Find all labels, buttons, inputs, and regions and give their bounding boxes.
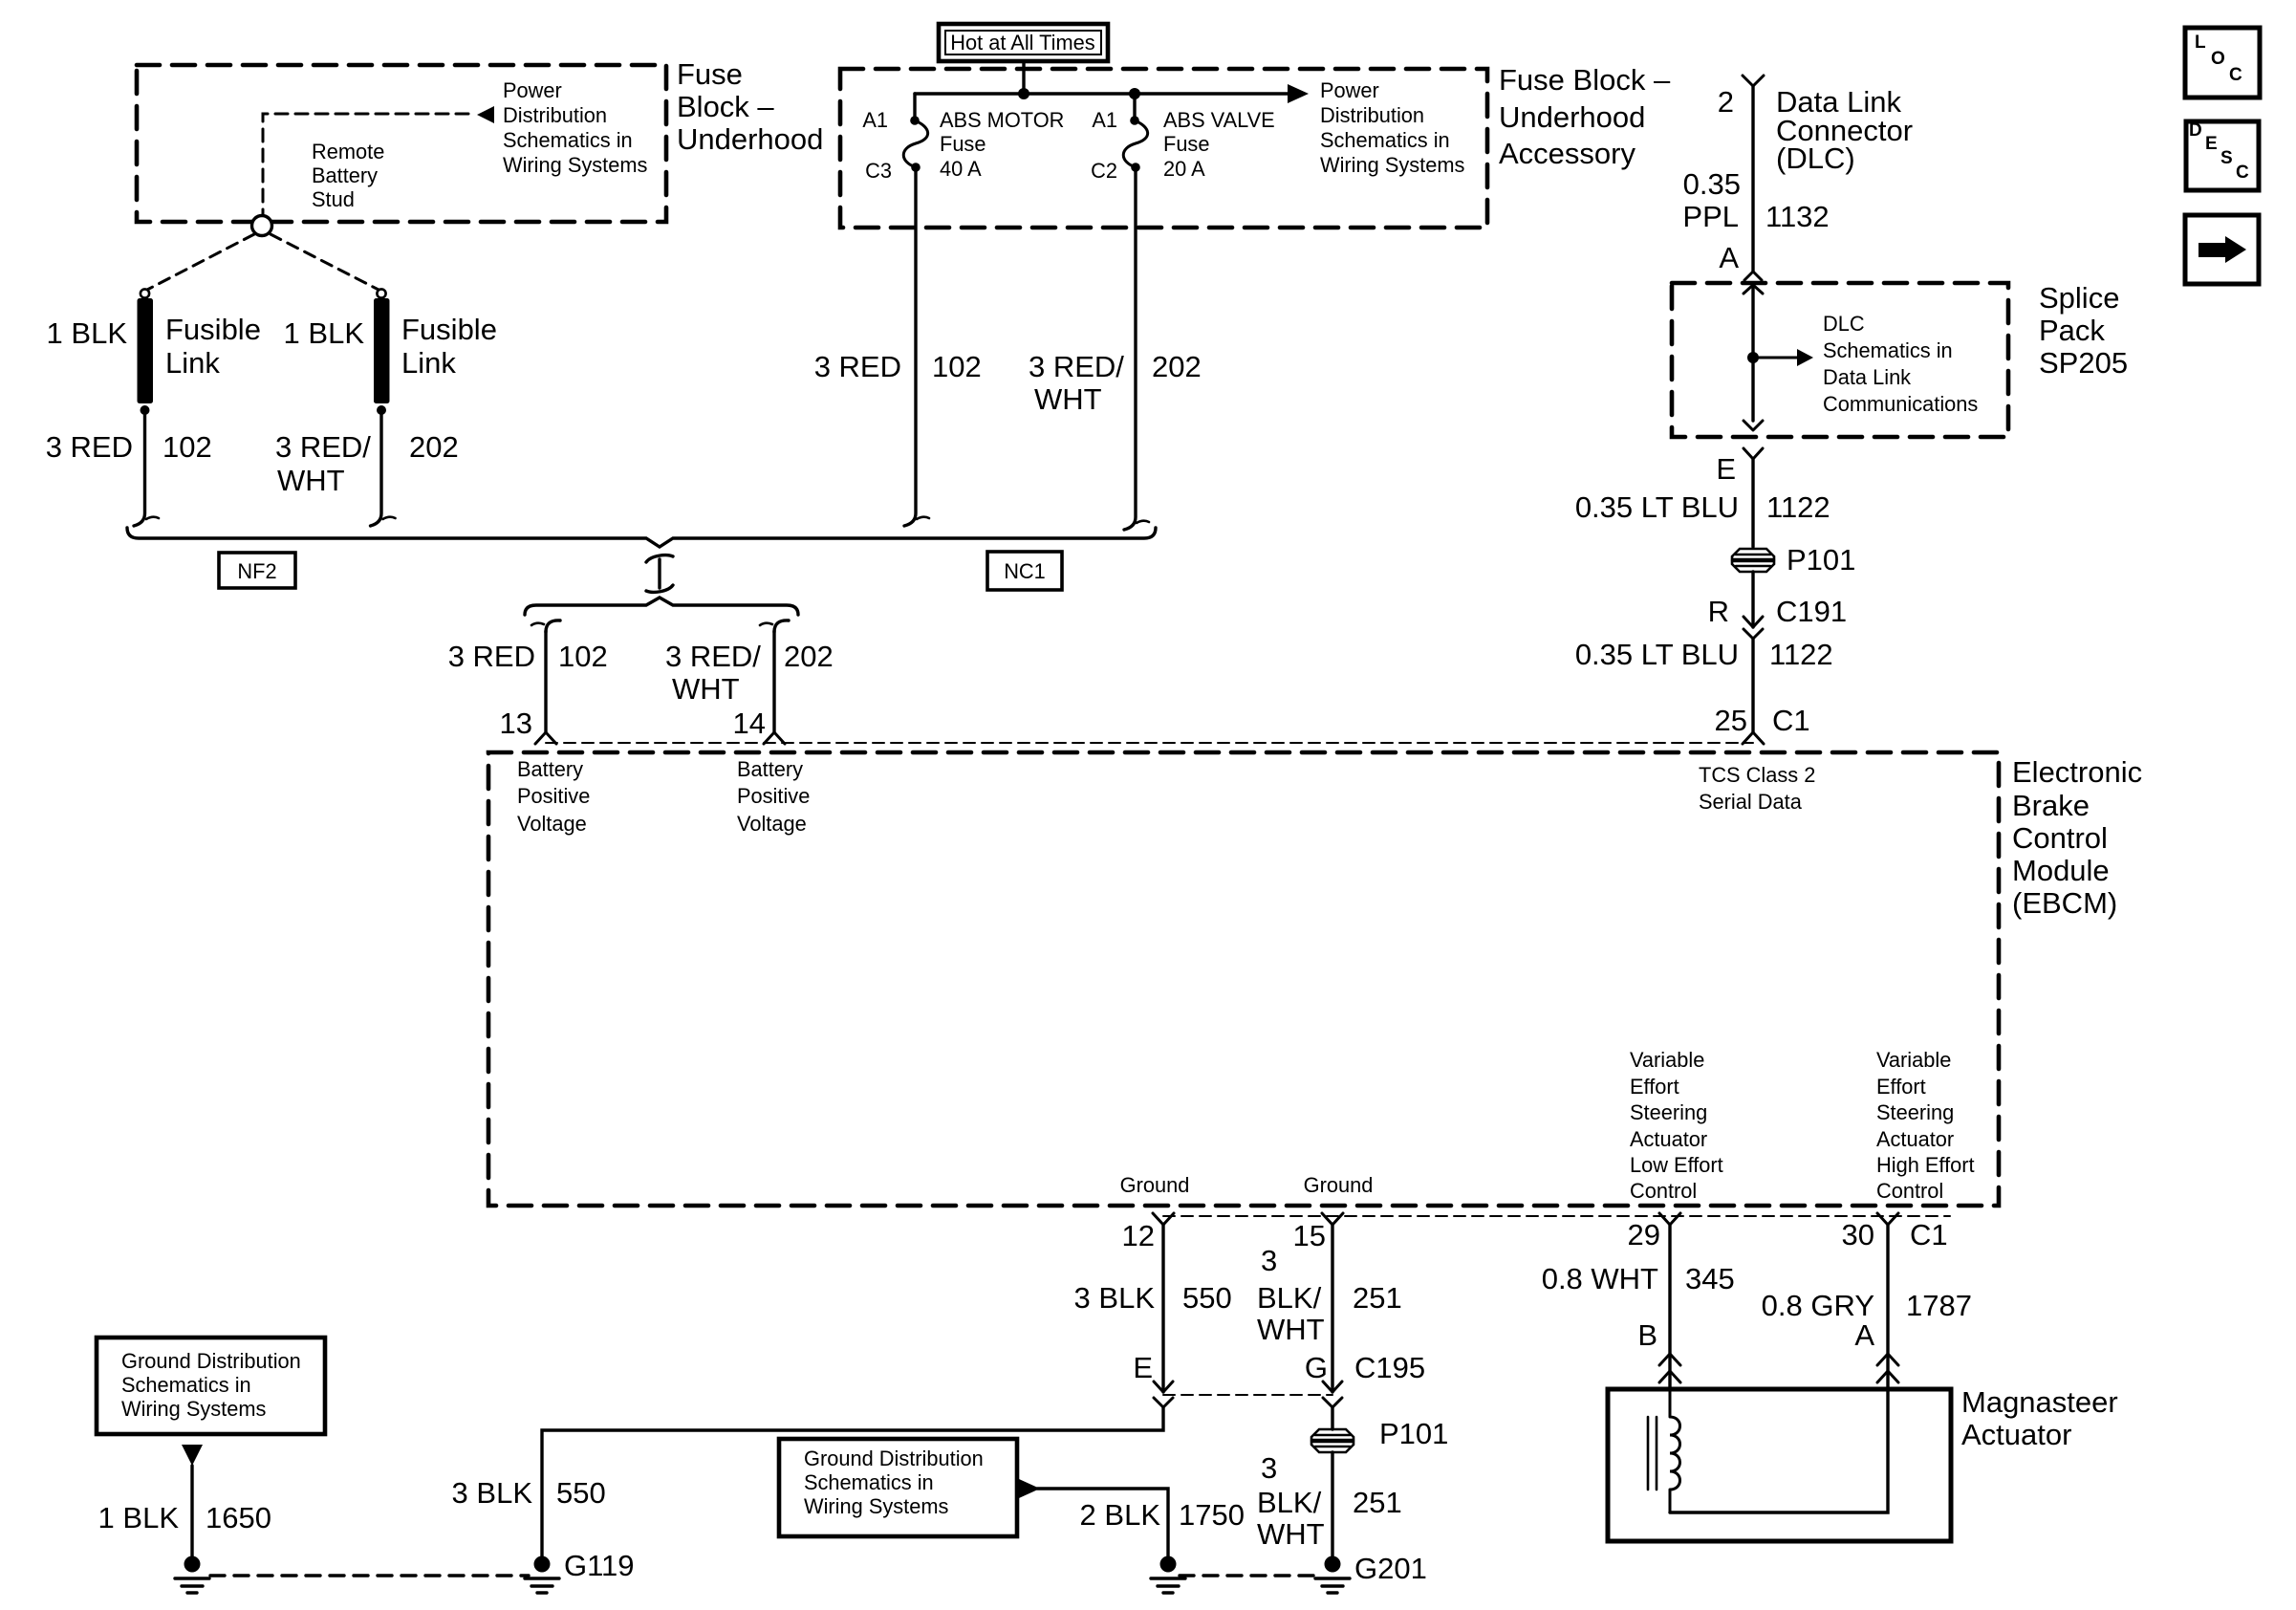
- svg-text:WHT: WHT: [1257, 1313, 1325, 1346]
- svg-text:A: A: [1719, 241, 1739, 274]
- Magnasteer coil winding: [1670, 1389, 1680, 1512]
- reference arrowhead to Power Distribution: [477, 106, 494, 123]
- svg-text:R: R: [1708, 595, 1729, 628]
- svg-text:20 A: 20 A: [1163, 157, 1205, 181]
- svg-text:40 A: 40 A: [940, 157, 982, 181]
- svg-text:3 RED/: 3 RED/: [275, 430, 371, 464]
- svg-text:Voltage: Voltage: [517, 812, 587, 836]
- svg-text:3: 3: [1261, 1244, 1277, 1277]
- svg-text:251: 251: [1353, 1281, 1402, 1315]
- svg-text:NF2: NF2: [237, 559, 276, 583]
- arrowhead to Power Distribution: [1288, 84, 1309, 103]
- junction dot below right fusible link: [377, 405, 386, 415]
- svg-text:Wiring Systems: Wiring Systems: [804, 1494, 948, 1518]
- svg-text:E: E: [2205, 134, 2218, 154]
- Hot at All Times box: [939, 24, 1108, 61]
- svg-text:Ground: Ground: [1304, 1173, 1374, 1197]
- C195 thin dashed connector line: [1163, 1394, 1332, 1396]
- svg-text:B: B: [1637, 1318, 1657, 1352]
- svg-text:P101: P101: [1787, 543, 1855, 577]
- wire: circuit 102 from left fusible link down to NF2 bus: [134, 413, 145, 526]
- ground G119 symbol: [525, 1578, 559, 1593]
- wire from Hot at All Times down to bus: [1022, 61, 1025, 94]
- svg-text:Accessory: Accessory: [1499, 137, 1635, 170]
- svg-text:C1: C1: [1772, 704, 1810, 737]
- svg-text:G119: G119: [564, 1549, 635, 1582]
- svg-text:Positive: Positive: [737, 784, 810, 808]
- svg-text:Underhood: Underhood: [1499, 100, 1645, 134]
- svg-text:Underhood: Underhood: [677, 122, 823, 156]
- EBCM bottom connector thin dashed line: [1163, 1215, 1950, 1217]
- svg-text:1132: 1132: [1765, 200, 1830, 233]
- wire: circuit 345 from pin 29 to Magnasteer: [1668, 1225, 1671, 1389]
- svg-text:Hot at All Times: Hot at All Times: [950, 31, 1095, 54]
- svg-text:550: 550: [556, 1476, 606, 1510]
- wire curl at top of circuit 202 branch: [774, 620, 789, 632]
- ground distribution reference box (left): [97, 1338, 325, 1434]
- svg-text:Remote: Remote: [312, 140, 384, 163]
- svg-text:Effort: Effort: [1630, 1075, 1679, 1099]
- EBCM dashed box: [488, 752, 1999, 1206]
- svg-text:ABS VALVE: ABS VALVE: [1163, 108, 1275, 132]
- ground symbol (1750): [1151, 1578, 1185, 1593]
- dashed ground bus G201: [1180, 1574, 1319, 1577]
- svg-text:550: 550: [1182, 1281, 1232, 1315]
- svg-text:Electronic: Electronic: [2012, 755, 2142, 789]
- feed bus line with arrow to Power Distribution: [915, 92, 1292, 95]
- svg-text:15: 15: [1293, 1219, 1326, 1252]
- wire: circuit 1132 from DLC down to splice pack: [1751, 86, 1754, 272]
- svg-text:1122: 1122: [1769, 638, 1833, 671]
- svg-text:BLK/: BLK/: [1257, 1486, 1322, 1519]
- LOC legend box: [2185, 28, 2260, 98]
- connector E fork below splice pack: [1744, 448, 1763, 459]
- svg-text:Link: Link: [401, 346, 456, 380]
- svg-text:3: 3: [1261, 1451, 1277, 1485]
- ground symbol (1650): [175, 1578, 209, 1593]
- splice exit chevron: [1744, 421, 1763, 430]
- svg-text:C3: C3: [865, 159, 892, 183]
- svg-text:Distribution: Distribution: [1320, 103, 1424, 127]
- svg-text:PPL: PPL: [1682, 200, 1739, 233]
- svg-text:1650: 1650: [206, 1501, 271, 1534]
- svg-text:Ground Distribution: Ground Distribution: [121, 1349, 301, 1373]
- svg-text:345: 345: [1685, 1262, 1735, 1295]
- svg-text:Control: Control: [1876, 1179, 1943, 1203]
- wire curl at top of circuit 102 branch: [546, 620, 560, 632]
- ground dot (1750): [1160, 1556, 1177, 1573]
- ABS VALVE fuse element: [1130, 116, 1139, 125]
- splice junction dot: [1747, 352, 1759, 363]
- splice pack SP205 dashed box: [1672, 283, 2008, 437]
- terminal circle atop left fusible link: [141, 289, 149, 297]
- terminal circle atop right fusible link: [377, 289, 385, 297]
- svg-text:Fusible: Fusible: [401, 313, 497, 346]
- wire: 550 from C195 to G119 ground: [542, 1407, 1163, 1556]
- svg-text:E: E: [1133, 1351, 1153, 1384]
- junction dot below left fusible link: [141, 405, 150, 415]
- wire: 251 from C195 to P101: [1331, 1407, 1333, 1429]
- svg-text:C: C: [2229, 65, 2242, 85]
- svg-text:102: 102: [558, 640, 608, 673]
- pin 12 connector fork: [1153, 1213, 1174, 1225]
- svg-text:0.35 LT BLU: 0.35 LT BLU: [1575, 490, 1739, 524]
- wire: circuit 1122 from splice to P101: [1751, 459, 1754, 547]
- svg-text:Power: Power: [1320, 78, 1379, 102]
- fuse block underhood accessory dashed box: [840, 69, 1487, 228]
- svg-text:(EBCM): (EBCM): [2012, 886, 2117, 920]
- svg-text:3 RED/: 3 RED/: [665, 640, 761, 673]
- svg-text:3 BLK: 3 BLK: [452, 1476, 533, 1510]
- svg-text:25: 25: [1715, 704, 1747, 737]
- svg-text:Fuse: Fuse: [677, 57, 743, 91]
- svg-text:251: 251: [1353, 1486, 1402, 1519]
- fuse block underhood dashed box (top-left remote battery stud region): [137, 65, 666, 222]
- wire: circuit 202 from right fusible link down to NF2 bus: [371, 413, 382, 526]
- connector C195 pin G fork: [1323, 1398, 1342, 1407]
- svg-text:Battery: Battery: [312, 163, 378, 187]
- connector A fork (wire end): [1744, 272, 1762, 280]
- svg-text:13: 13: [500, 707, 532, 740]
- Magnasteer pin A chevrons: [1877, 1354, 1898, 1382]
- svg-text:3 BLK: 3 BLK: [1074, 1281, 1156, 1315]
- connector C195 pin E chevron: [1154, 1382, 1173, 1392]
- bus brace NF2/NC1 (main battery feed bus): [127, 528, 1156, 547]
- svg-text:2 BLK: 2 BLK: [1080, 1498, 1161, 1532]
- label box: NF2: [219, 553, 295, 588]
- svg-text:Positive: Positive: [517, 784, 590, 808]
- svg-text:G: G: [1305, 1351, 1328, 1384]
- wire: circuit 102 down to EBCM pin 13: [544, 631, 547, 732]
- wire drop to ABS VALVE fuse: [1133, 94, 1136, 117]
- svg-text:Wiring Systems: Wiring Systems: [503, 153, 647, 177]
- DLC pin 2 connector fork: [1743, 76, 1764, 86]
- remote battery stud inner dashed outline: [263, 114, 470, 222]
- wire: circuit 1650 to ground: [190, 1466, 193, 1556]
- svg-text:102: 102: [162, 430, 212, 464]
- connector C195 pin G chevron: [1323, 1382, 1342, 1392]
- Magnasteer actuator box: [1608, 1389, 1951, 1541]
- svg-text:12: 12: [1122, 1219, 1155, 1252]
- svg-text:202: 202: [409, 430, 459, 464]
- svg-text:Wiring Systems: Wiring Systems: [121, 1397, 266, 1421]
- svg-text:C1: C1: [1910, 1218, 1948, 1251]
- DESC legend box: [2186, 120, 2259, 190]
- svg-text:Module: Module: [2012, 854, 2110, 887]
- svg-text:Variable: Variable: [1876, 1048, 1951, 1072]
- ground G201 dot: [1325, 1556, 1341, 1573]
- connector C191 fork (wire start): [1744, 629, 1763, 639]
- svg-text:Schematics in: Schematics in: [1823, 338, 1953, 362]
- svg-text:Link: Link: [165, 346, 220, 380]
- svg-text:C2: C2: [1091, 159, 1117, 183]
- svg-text:Schematics in: Schematics in: [503, 128, 633, 152]
- ABS MOTOR fuse element: [910, 116, 920, 125]
- svg-text:0.35: 0.35: [1683, 167, 1741, 201]
- fusible link F2 body: [374, 298, 390, 403]
- pin 14 connector fork: [764, 732, 785, 744]
- lower distribution brace for EBCM feed wires: [525, 598, 798, 615]
- svg-text:202: 202: [1152, 350, 1202, 383]
- reference arrowhead (1750): [1019, 1479, 1040, 1498]
- svg-text:102: 102: [932, 350, 982, 383]
- wire: 1122 from C191 to EBCM pin 25: [1751, 639, 1754, 732]
- svg-text:Ground: Ground: [1120, 1173, 1190, 1197]
- arrow legend box: [2185, 215, 2259, 284]
- svg-text:C195: C195: [1354, 1351, 1425, 1384]
- wire: circuit 1787 from pin 30 to Magnasteer: [1886, 1225, 1889, 1389]
- svg-text:Actuator: Actuator: [1961, 1418, 2071, 1451]
- wire: circuit 202 from ABS VALVE fuse down to bus: [1124, 171, 1136, 530]
- svg-text:Block –: Block –: [677, 90, 774, 123]
- svg-text:ABS MOTOR: ABS MOTOR: [940, 108, 1064, 132]
- svg-text:G201: G201: [1354, 1552, 1427, 1585]
- svg-text:Fusible: Fusible: [165, 313, 261, 346]
- svg-text:Fuse Block –: Fuse Block –: [1499, 63, 1671, 97]
- ground G201 symbol: [1315, 1578, 1350, 1593]
- svg-text:TCS Class 2: TCS Class 2: [1699, 763, 1815, 787]
- svg-text:Brake: Brake: [2012, 789, 2090, 822]
- svg-text:P101: P101: [1379, 1417, 1448, 1450]
- dashed ground bus G119: [210, 1574, 529, 1577]
- wire: circuit 102 from ABS MOTOR fuse down to bus: [904, 171, 916, 526]
- svg-text:A: A: [1854, 1318, 1874, 1352]
- svg-text:30: 30: [1842, 1218, 1874, 1251]
- svg-text:3 RED: 3 RED: [814, 350, 901, 383]
- svg-text:Battery: Battery: [737, 757, 803, 781]
- svg-text:Steering: Steering: [1876, 1100, 1954, 1124]
- svg-text:1 BLK: 1 BLK: [47, 316, 128, 350]
- svg-text:Actuator: Actuator: [1876, 1127, 1954, 1151]
- svg-text:NC1: NC1: [1004, 559, 1046, 583]
- svg-text:3 RED: 3 RED: [448, 640, 535, 673]
- svg-text:Low Effort: Low Effort: [1630, 1153, 1723, 1177]
- splice internal wire with entry chevron: [1744, 285, 1763, 294]
- svg-text:Actuator: Actuator: [1630, 1127, 1707, 1151]
- wire: circuit 202 down to EBCM pin 14: [772, 631, 775, 732]
- svg-text:DLC: DLC: [1823, 312, 1865, 336]
- svg-text:3 RED/: 3 RED/: [1029, 350, 1124, 383]
- svg-text:1 BLK: 1 BLK: [98, 1501, 180, 1534]
- svg-text:0.35 LT BLU: 0.35 LT BLU: [1575, 638, 1739, 671]
- svg-text:Serial Data: Serial Data: [1699, 790, 1803, 814]
- pin 30 connector fork: [1877, 1213, 1898, 1225]
- pin 25 connector fork: [1743, 732, 1764, 744]
- wire: 1122 from P101 to C191: [1751, 572, 1754, 627]
- svg-text:WHT: WHT: [277, 464, 345, 497]
- svg-text:Pack: Pack: [2039, 314, 2105, 347]
- svg-text:Control: Control: [1630, 1179, 1697, 1203]
- Magnasteer internal loop wire: [1670, 1389, 1888, 1512]
- svg-text:C: C: [2236, 163, 2249, 183]
- svg-text:SP205: SP205: [2039, 346, 2128, 380]
- svg-text:1750: 1750: [1179, 1498, 1245, 1532]
- svg-text:Schematics in: Schematics in: [1320, 128, 1450, 152]
- splice reference arrow to DLC schematics: [1753, 357, 1799, 359]
- junction dot at ABS VALVE branch: [1129, 88, 1140, 99]
- svg-text:1122: 1122: [1766, 490, 1830, 524]
- svg-text:Distribution: Distribution: [503, 103, 607, 127]
- svg-text:3 RED: 3 RED: [46, 430, 133, 464]
- svg-text:(DLC): (DLC): [1776, 141, 1855, 175]
- svg-text:Wiring Systems: Wiring Systems: [1320, 153, 1464, 177]
- svg-text:E: E: [1716, 452, 1736, 486]
- svg-text:Battery: Battery: [517, 757, 583, 781]
- connector C195 pin E fork: [1154, 1398, 1173, 1407]
- fusible link F1 body: [138, 298, 154, 403]
- svg-text:0.8 WHT: 0.8 WHT: [1542, 1262, 1658, 1295]
- ground dot (1650): [184, 1556, 201, 1573]
- wire: dashed diagonal to left fusible link: [147, 234, 254, 290]
- svg-text:29: 29: [1628, 1218, 1660, 1251]
- svg-text:Ground Distribution: Ground Distribution: [804, 1447, 984, 1470]
- bus continuation symbol below brace point: [658, 559, 661, 588]
- svg-text:Fuse: Fuse: [940, 132, 986, 156]
- svg-text:Data Link: Data Link: [1823, 365, 1911, 389]
- svg-text:WHT: WHT: [1257, 1517, 1325, 1551]
- svg-text:Effort: Effort: [1876, 1075, 1926, 1099]
- ground G119 dot: [534, 1556, 551, 1573]
- svg-text:Variable: Variable: [1630, 1048, 1704, 1072]
- pin 15 connector fork: [1322, 1213, 1343, 1225]
- pin 29 connector fork: [1659, 1213, 1680, 1225]
- svg-text:202: 202: [784, 640, 834, 673]
- wire drop to ABS MOTOR fuse: [913, 94, 916, 117]
- ground distribution reference box (right): [779, 1439, 1017, 1536]
- svg-text:Power: Power: [503, 78, 562, 102]
- svg-text:Schematics in: Schematics in: [804, 1470, 934, 1494]
- svg-text:Communications: Communications: [1823, 392, 1978, 416]
- svg-text:2: 2: [1718, 85, 1734, 119]
- wire: circuit 1750 up and left to reference arrow: [1037, 1489, 1168, 1556]
- EBCM C1 connector thin dashed line: [546, 742, 1753, 744]
- svg-text:WHT: WHT: [672, 672, 740, 706]
- pass-through grommet P101 (upper): [1732, 549, 1774, 572]
- svg-text:A1: A1: [862, 108, 888, 132]
- svg-text:Fuse: Fuse: [1163, 132, 1209, 156]
- svg-text:Magnasteer: Magnasteer: [1961, 1385, 2118, 1419]
- svg-text:1 BLK: 1 BLK: [284, 316, 365, 350]
- Magnasteer coil core bars: [1648, 1417, 1657, 1490]
- svg-text:Steering: Steering: [1630, 1100, 1707, 1124]
- pass-through grommet P101 (lower): [1311, 1429, 1354, 1452]
- node: remote battery stud circle: [252, 216, 272, 236]
- svg-text:0.8 GRY: 0.8 GRY: [1762, 1289, 1874, 1322]
- svg-text:D: D: [2189, 120, 2202, 141]
- svg-text:C191: C191: [1776, 595, 1847, 628]
- svg-text:O: O: [2211, 49, 2225, 69]
- svg-text:Splice: Splice: [2039, 281, 2119, 315]
- reference triangle below box: [182, 1445, 203, 1466]
- svg-text:S: S: [2220, 148, 2233, 168]
- svg-text:14: 14: [733, 707, 766, 740]
- wire: dashed diagonal to right fusible link: [271, 234, 379, 290]
- connector C191 chevron (wire end): [1744, 617, 1763, 627]
- svg-text:Control: Control: [2012, 821, 2108, 855]
- svg-text:Stud: Stud: [312, 187, 355, 211]
- svg-text:L: L: [2195, 33, 2206, 53]
- junction dot at hot feed: [1018, 88, 1029, 99]
- label box: NC1: [987, 552, 1062, 590]
- svg-text:1787: 1787: [1906, 1289, 1972, 1322]
- svg-text:Schematics in: Schematics in: [121, 1373, 251, 1397]
- wire: 251 from P101 to G201: [1331, 1452, 1333, 1556]
- svg-text:BLK/: BLK/: [1257, 1281, 1322, 1315]
- svg-text:Voltage: Voltage: [737, 812, 807, 836]
- wire: circuit 550 from pin 12 to C195 pin E: [1161, 1225, 1164, 1392]
- pin 13 connector fork: [535, 732, 556, 744]
- wire: circuit 251 from pin 15 to C195 pin G: [1331, 1225, 1333, 1392]
- svg-text:A1: A1: [1092, 108, 1117, 132]
- svg-text:High Effort: High Effort: [1876, 1153, 1975, 1177]
- Magnasteer pin B chevrons: [1659, 1354, 1680, 1382]
- svg-text:WHT: WHT: [1034, 382, 1102, 416]
